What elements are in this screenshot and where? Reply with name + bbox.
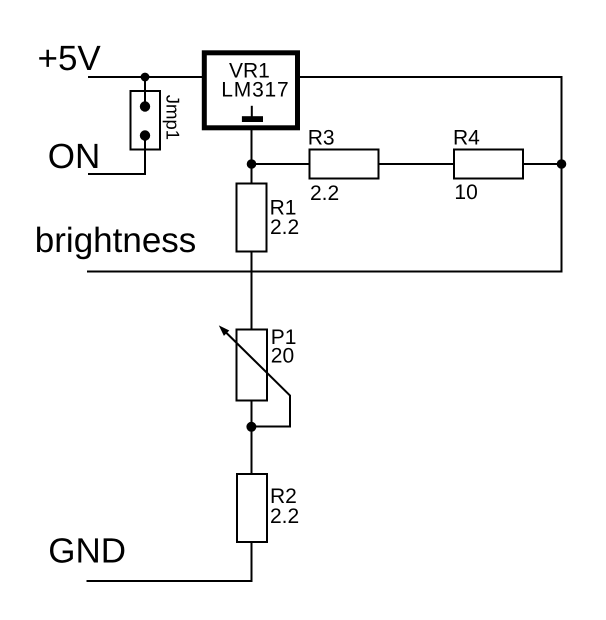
svg-text:20: 20: [271, 344, 294, 367]
svg-text:LM317: LM317: [221, 79, 289, 102]
svg-text:R4: R4: [453, 126, 480, 149]
svg-text:+5V: +5V: [38, 39, 102, 78]
svg-text:Jmp1: Jmp1: [163, 95, 184, 140]
svg-text:10: 10: [454, 181, 477, 204]
svg-text:brightness: brightness: [35, 221, 196, 260]
svg-text:2.2: 2.2: [310, 182, 339, 205]
svg-text:GND: GND: [48, 532, 126, 571]
svg-text:2.2: 2.2: [270, 505, 299, 528]
svg-text:ON: ON: [48, 137, 101, 176]
svg-text:R3: R3: [308, 126, 335, 149]
svg-text:2.2: 2.2: [270, 216, 299, 239]
